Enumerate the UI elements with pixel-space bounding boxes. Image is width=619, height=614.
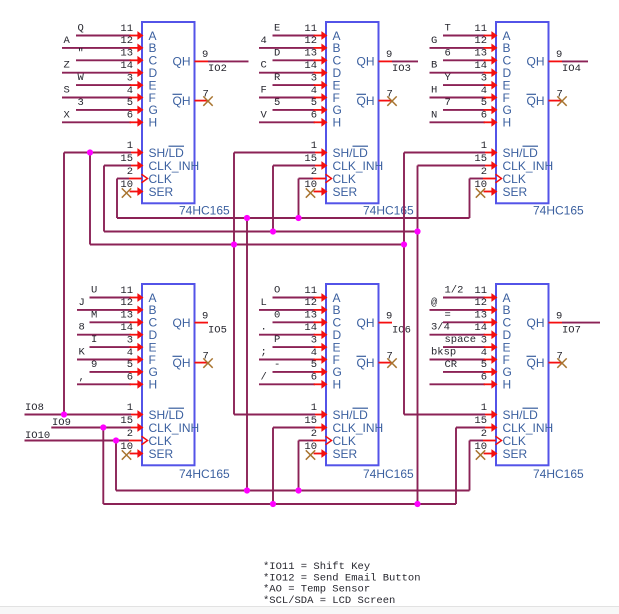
svg-text:9: 9 [556, 310, 562, 322]
junction CLK_INH bus / U3 tie [414, 228, 420, 234]
svg-text:IO8: IO8 [25, 402, 44, 414]
svg-text:SH/LD: SH/LD [503, 408, 539, 422]
svg-text:74HC165: 74HC165 [179, 467, 230, 481]
svg-text:QH: QH [357, 316, 375, 330]
U6 pin 5 input G wire net "CR" [443, 359, 498, 376]
svg-text:74HC165: 74HC165 [533, 204, 584, 218]
svg-text:-: - [274, 359, 280, 371]
U6 part value label 74HC165 [533, 467, 584, 481]
svg-text:IO5: IO5 [208, 324, 227, 336]
U6 pin 11 input A wire net "1/2" [443, 285, 498, 302]
svg-text:3: 3 [78, 97, 84, 109]
svg-text:bksp: bksp [431, 347, 456, 359]
wire net CLK_INH: IO9 drop to bottom bus [102, 428, 104, 505]
IC U5 74HC165 body [326, 284, 383, 465]
U3 pin 13 input C wire net "6" [443, 47, 498, 64]
svg-text:QH: QH [173, 316, 191, 330]
svg-text:2: 2 [127, 428, 133, 440]
wire net SH/LD: IO8 feed to U4 pin 1 [25, 414, 132, 416]
svg-text:74HC165: 74HC165 [533, 467, 584, 481]
wire net SH/LD: U3-U6 tie vertical [403, 153, 405, 415]
svg-text:4: 4 [311, 347, 317, 359]
svg-text:*SCL/SDA = LCD Screen: *SCL/SDA = LCD Screen [263, 595, 395, 607]
junction IO8 / vertical [61, 411, 67, 417]
U6 pin 15 CLK_INH input [474, 415, 497, 432]
svg-text:C: C [261, 60, 267, 72]
wire net SH/LD: drop to top bus [89, 153, 91, 245]
svg-text:3/4: 3/4 [431, 322, 450, 334]
svg-text:SER: SER [503, 447, 528, 461]
U6 pin 3 input E wire net "space" [443, 334, 498, 351]
svg-text:15: 15 [120, 415, 133, 427]
svg-text:9: 9 [202, 310, 208, 322]
svg-text:H: H [149, 116, 158, 130]
svg-text:6: 6 [127, 372, 133, 384]
U5 pin 13 input C wire net "0" [273, 309, 328, 326]
U3 pin 11 input A wire net "T" [443, 23, 498, 40]
svg-text:13: 13 [474, 310, 487, 322]
svg-text:6: 6 [445, 47, 451, 59]
svg-text:15: 15 [304, 415, 317, 427]
wire net CLK: U3 riser [469, 179, 471, 219]
svg-text:H: H [503, 378, 512, 392]
svg-text:5: 5 [274, 97, 280, 109]
svg-text:QH: QH [357, 55, 375, 69]
U2 pin 7 output /QH no-connect [379, 88, 397, 106]
svg-text:5: 5 [481, 97, 487, 109]
svg-text:E: E [274, 23, 280, 35]
wire net SH/LD: U5 pin 1 horizontal [234, 414, 315, 416]
U2 pin 5 input G wire net "5" [273, 97, 328, 114]
junction IO10 / bottom drop [113, 437, 119, 443]
wire net CLK_INH: U3 vertical tie top-bottom [417, 166, 419, 505]
svg-text:74HC165: 74HC165 [363, 467, 414, 481]
svg-text:CLK_INH: CLK_INH [333, 159, 384, 173]
svg-text:4: 4 [127, 347, 133, 359]
svg-text:1: 1 [127, 402, 133, 414]
U2 pin 9 output QH net IO3 [379, 49, 419, 75]
svg-text:QH: QH [173, 94, 191, 108]
U6 pin 9 output QH net IO7 [549, 310, 601, 336]
U2 part value label 74HC165 [363, 204, 414, 218]
U3 pin 14 input D wire net "B" [430, 60, 498, 77]
wire net CLK_INH: U6 riser [455, 428, 457, 505]
svg-text:3: 3 [311, 72, 317, 84]
U2 pin 6 input H wire net "V" [259, 109, 328, 126]
U4 pin 6 input H wire net "," [77, 371, 144, 388]
svg-text:5: 5 [311, 97, 317, 109]
wire net CLK_INH: U5 riser [272, 428, 274, 505]
U1 pin 3 input E wire net "W" [76, 72, 144, 89]
svg-text:74HC165: 74HC165 [179, 204, 230, 218]
U6 pin 7 output /QH no-connect [549, 350, 567, 368]
svg-text:,: , [79, 371, 85, 383]
wire net CLK: U1 drop to top bus [116, 179, 118, 219]
svg-text:IO3: IO3 [392, 63, 411, 75]
svg-text:SH/LD: SH/LD [333, 408, 369, 422]
wire net CLK: U6 riser [469, 441, 471, 491]
U4 pin 3 input E wire net "I" [90, 334, 144, 351]
svg-text:15: 15 [120, 153, 133, 165]
U3 pin 3 input E wire net "Y" [443, 72, 498, 89]
svg-text:CLK_INH: CLK_INH [503, 421, 554, 435]
wire net CLK_INH: IO9 feed to U4 pin 15 [51, 427, 131, 429]
U4 pin 13 input C wire net "M" [90, 309, 144, 326]
U4 pin 15 CLK_INH input [120, 415, 143, 432]
wire net CLK_INH: U1 pin 15 horizontal [104, 165, 131, 167]
svg-text:IO6: IO6 [392, 324, 411, 336]
svg-text:QH: QH [173, 55, 191, 69]
U3 pin 7 output /QH no-connect [549, 88, 567, 106]
svg-text:H: H [333, 378, 342, 392]
U5 pin 7 output /QH no-connect [379, 350, 397, 368]
junction CLK bus / tie vertical [244, 215, 250, 221]
U5 pin 14 input D wire net "." [259, 322, 328, 339]
svg-text:11: 11 [120, 285, 133, 297]
U5 pin 12 input B wire net "L" [259, 297, 328, 314]
svg-text:6: 6 [311, 372, 317, 384]
wire net CLK_INH: U6 pin 15 horizontal [456, 427, 485, 429]
U1 part value label 74HC165 [179, 204, 230, 218]
wire net CLK: U5 riser [298, 441, 300, 491]
wire net CLK: U5 pin 2 horizontal [299, 440, 314, 442]
junction SH/LD bus / U3-U6 tie [401, 241, 407, 247]
svg-text:P: P [274, 334, 280, 346]
svg-text:QH: QH [527, 316, 545, 330]
U3 pin 10 SER input no-connect [474, 179, 497, 198]
svg-text:2: 2 [481, 166, 487, 178]
U2 pin 10 SER input no-connect [304, 179, 327, 198]
svg-text:4: 4 [127, 85, 133, 97]
svg-text:I: I [91, 334, 97, 346]
U1 pin 5 input G wire net "3" [76, 97, 144, 114]
svg-text:IO9: IO9 [52, 417, 71, 429]
U5 pin 9 output QH net IO6 [379, 310, 411, 336]
U1 pin 13 input C wire net """ [76, 47, 144, 64]
svg-text:Z: Z [64, 60, 70, 72]
U5 pin 15 CLK_INH input [304, 415, 327, 432]
U4 pin 2 CLK clock input [127, 428, 148, 445]
wire net CLK_INH: U2 pin 15 horizontal [273, 165, 315, 167]
wire net CLK_INH: bottom bus [103, 503, 456, 505]
svg-text:4: 4 [261, 35, 267, 47]
svg-text:7: 7 [445, 97, 451, 109]
U5 pin 4 input F wire net ";" [259, 347, 328, 364]
svg-text:1: 1 [311, 140, 317, 152]
svg-text:13: 13 [304, 48, 317, 60]
svg-text:SH/LD: SH/LD [503, 146, 539, 160]
U5 pin 11 input A wire net "O" [273, 285, 328, 302]
svg-text:12: 12 [474, 297, 487, 309]
svg-text:R: R [274, 72, 281, 84]
svg-text:2: 2 [311, 428, 317, 440]
IC U2 74HC165 body [326, 22, 383, 203]
wire net SH/LD: top bus [90, 244, 404, 246]
U6 pin 6 input H wire [430, 372, 498, 389]
junction CLK bottom bus / tie vertical [244, 487, 250, 493]
svg-text:F: F [261, 85, 267, 97]
svg-text:SH/LD: SH/LD [149, 408, 185, 422]
svg-text:14: 14 [474, 60, 487, 72]
svg-text:IO10: IO10 [25, 430, 50, 442]
U1 pin 9 output QH net IO2 [195, 49, 249, 75]
svg-text:15: 15 [474, 415, 487, 427]
svg-text:13: 13 [474, 48, 487, 60]
U4 pin 7 output /QH no-connect [195, 350, 213, 368]
svg-text:Y: Y [445, 72, 452, 84]
svg-text:4: 4 [481, 347, 487, 359]
svg-text:1: 1 [481, 140, 487, 152]
svg-text:2: 2 [127, 166, 133, 178]
svg-text:CLK_INH: CLK_INH [149, 421, 200, 435]
U3 pin 12 input B wire net "G" [430, 35, 498, 52]
U4 pin 11 input A wire net "U" [90, 285, 144, 302]
junction CLK_INH bottom bus / U3 tie [414, 501, 420, 507]
svg-text:3: 3 [481, 334, 487, 346]
svg-text:M: M [91, 309, 97, 321]
U2 pin 13 input C wire net "D" [273, 47, 328, 64]
wire net CLK: IO10 drop to bottom bus [115, 441, 117, 491]
svg-text:9: 9 [91, 359, 97, 371]
junction CLK bottom bus / U5 riser [295, 487, 301, 493]
U1 pin 7 output /QH no-connect [195, 88, 213, 106]
svg-text:11: 11 [304, 285, 317, 297]
svg-text:H: H [149, 378, 158, 392]
svg-text:74HC165: 74HC165 [363, 204, 414, 218]
wire net CLK: U3 pin 2 horizontal [470, 178, 484, 180]
svg-text:1: 1 [481, 402, 487, 414]
svg-text:12: 12 [120, 35, 133, 47]
U4 pin 5 input G wire net "9" [90, 359, 144, 376]
svg-text:SER: SER [333, 447, 358, 461]
svg-text:QH: QH [173, 356, 191, 370]
wire net CLK_INH: U2 riser [272, 166, 274, 232]
wire net SH/LD: U2 pin 1 horizontal [234, 152, 315, 154]
U1 pin 12 input B wire net "A" [62, 35, 144, 52]
svg-text:5: 5 [481, 359, 487, 371]
svg-text:14: 14 [304, 322, 317, 334]
U6 pin 4 input F wire net "bksp" [430, 347, 498, 364]
svg-text:.: . [261, 322, 267, 334]
svg-text:V: V [261, 109, 268, 121]
U5 pin 3 input E wire net "P" [273, 334, 328, 351]
svg-text:12: 12 [120, 297, 133, 309]
svg-text:11: 11 [304, 23, 317, 35]
wire net CLK_INH: U1 drop to top bus [103, 166, 105, 232]
IC U4 74HC165 body [142, 284, 199, 465]
svg-text:CLK_INH: CLK_INH [333, 421, 384, 435]
wire net CLK: bottom bus [116, 490, 470, 492]
svg-text:SER: SER [333, 185, 358, 199]
svg-text:*IO11 = Shift Key: *IO11 = Shift Key [263, 561, 370, 573]
U6 pin 2 CLK clock input [481, 428, 502, 445]
wire net CLK: U2 pin 2 horizontal [299, 178, 314, 180]
svg-text:U: U [91, 285, 97, 297]
svg-text:X: X [64, 109, 71, 121]
svg-text:1: 1 [127, 140, 133, 152]
U5 pin 6 input H wire net "/" [259, 371, 328, 388]
svg-text:T: T [445, 23, 451, 35]
svg-text:11: 11 [474, 23, 487, 35]
svg-text:13: 13 [120, 310, 133, 322]
svg-text:6: 6 [481, 372, 487, 384]
svg-text:SH/LD: SH/LD [149, 146, 185, 160]
U4 pin 10 SER input no-connect [120, 441, 143, 460]
svg-text:space: space [445, 334, 477, 346]
junction U1 SH/LD / bus drop [87, 149, 93, 155]
U3 part value label 74HC165 [533, 204, 584, 218]
wire net CLK_INH: U5 pin 15 horizontal [273, 427, 315, 429]
wire net CLK: U6 pin 2 horizontal [470, 440, 484, 442]
svg-text:14: 14 [304, 60, 317, 72]
svg-text:SER: SER [149, 185, 174, 199]
U5 pin 2 CLK clock input [311, 428, 332, 445]
svg-text:3: 3 [311, 334, 317, 346]
U3 pin 4 input F wire net "H" [430, 85, 498, 102]
svg-text:QH: QH [527, 356, 545, 370]
U3 pin 5 input G wire net "7" [443, 97, 498, 114]
U4 pin 14 input D wire net "8" [77, 322, 144, 339]
svg-text:15: 15 [304, 153, 317, 165]
U3 pin 1 SH/LD input [481, 140, 498, 157]
U1 pin 11 input A wire net "Q" [76, 23, 144, 40]
svg-text:QH: QH [357, 356, 375, 370]
U2 pin 2 CLK clock input [311, 166, 332, 183]
svg-text:;: ; [261, 347, 267, 359]
U3 pin 15 CLK_INH input [474, 153, 497, 170]
svg-text:6: 6 [311, 110, 317, 122]
svg-text:15: 15 [474, 153, 487, 165]
svg-text:N: N [431, 109, 437, 121]
svg-text:SER: SER [503, 185, 528, 199]
IO9 net label [52, 417, 71, 429]
U3 pin 2 CLK clock input [481, 166, 502, 183]
svg-text:9: 9 [202, 49, 208, 61]
wire net SH/LD: vertical IO8 to U1 pin 1 [63, 153, 65, 415]
svg-text:14: 14 [474, 322, 487, 334]
U1 pin 2 CLK clock input [127, 166, 148, 183]
wire net CLK: U2 riser [298, 179, 300, 219]
svg-text:S: S [64, 85, 70, 97]
svg-text:13: 13 [120, 48, 133, 60]
IC U6 74HC165 body [496, 284, 553, 465]
U2 pin 11 input A wire net "E" [273, 23, 328, 40]
svg-text:3: 3 [481, 72, 487, 84]
svg-text:14: 14 [120, 60, 133, 72]
svg-text:4: 4 [481, 85, 487, 97]
wire net CLK: IO10 feed to U4 pin 2 [25, 440, 130, 442]
junction CLK_INH bottom bus / U5 riser [270, 501, 276, 507]
svg-text:=: = [445, 309, 451, 321]
svg-text:QH: QH [527, 55, 545, 69]
junction CLK_INH bus / U2 riser [270, 228, 276, 234]
svg-text:12: 12 [304, 35, 317, 47]
svg-text:2: 2 [311, 166, 317, 178]
svg-text:12: 12 [474, 35, 487, 47]
wire net CLK: top-bottom tie vertical [246, 218, 248, 491]
svg-text:J: J [79, 297, 85, 309]
junction IO9 / bottom drop [100, 424, 106, 430]
svg-text:4: 4 [311, 85, 317, 97]
svg-text:3: 3 [127, 72, 133, 84]
svg-text:CLK: CLK [503, 172, 526, 186]
svg-text:IO4: IO4 [562, 63, 581, 75]
U4 pin 4 input F wire net "K" [77, 347, 144, 364]
U5 pin 5 input G wire net "-" [273, 359, 328, 376]
U1 pin 1 SH/LD input [127, 140, 144, 157]
svg-text:QH: QH [357, 94, 375, 108]
svg-text:W: W [78, 72, 85, 84]
svg-text:D: D [274, 47, 280, 59]
svg-text:11: 11 [474, 285, 487, 297]
svg-text:L: L [261, 297, 267, 309]
wire net CLK: U1 pin 2 horizontal [117, 178, 129, 180]
svg-text:5: 5 [127, 97, 133, 109]
U2 pin 4 input F wire net "F" [259, 85, 328, 102]
wire net SH/LD: U1 pin 1 horizontal [64, 152, 131, 154]
svg-text:9: 9 [556, 49, 562, 61]
U3 pin 6 input H wire net "N" [430, 109, 498, 126]
svg-text:CLK: CLK [333, 172, 356, 186]
wire net SH/LD: U6 pin 1 horizontal [404, 414, 485, 416]
U1 pin 4 input F wire net "S" [62, 85, 144, 102]
U6 pin 10 SER input no-connect [474, 441, 497, 460]
junction CLK bus / U2 riser [295, 215, 301, 221]
wire net CLK_INH: top bus [104, 231, 418, 233]
wire net CLK: top bus [117, 217, 470, 219]
svg-text:13: 13 [304, 310, 317, 322]
svg-text:QH: QH [527, 94, 545, 108]
IC U1 74HC165 body [142, 22, 199, 203]
svg-text:1: 1 [311, 402, 317, 414]
U5 pin 10 SER input no-connect [304, 441, 327, 460]
U4 pin 1 SH/LD input [127, 402, 144, 419]
U6 pin 13 input C wire net "=" [443, 309, 498, 326]
U2 pin 3 input E wire net "R" [273, 72, 328, 89]
U4 pin 9 output QH net IO5 [195, 310, 227, 336]
U5 part value label 74HC165 [363, 467, 414, 481]
svg-text:1/2: 1/2 [445, 285, 464, 297]
svg-text:H: H [333, 116, 342, 130]
svg-text:B: B [431, 60, 437, 72]
svg-text:IO2: IO2 [208, 63, 227, 75]
svg-text:9: 9 [386, 49, 392, 61]
wire net SH/LD: U3 pin 1 horizontal [404, 152, 485, 154]
svg-text:G: G [431, 35, 437, 47]
wire net SH/LD: U2-U5 tie vertical [233, 153, 235, 415]
svg-text:H: H [431, 85, 437, 97]
svg-text:CLK_INH: CLK_INH [149, 159, 200, 173]
U6 pin 1 SH/LD input [481, 402, 498, 419]
svg-text:*IO12 = Send Email Button: *IO12 = Send Email Button [263, 572, 421, 584]
U2 pin 15 CLK_INH input [304, 153, 327, 170]
svg-text:IO7: IO7 [562, 324, 581, 336]
U6 pin 12 input B wire net "@" [430, 297, 498, 314]
svg-text:11: 11 [120, 23, 133, 35]
svg-text:/: / [261, 371, 267, 383]
U1 pin 6 input H wire net "X" [62, 109, 144, 126]
U2 pin 1 SH/LD input [311, 140, 328, 157]
svg-text:O: O [274, 285, 280, 297]
svg-text:Q: Q [78, 23, 84, 35]
svg-text:12: 12 [304, 297, 317, 309]
svg-text:5: 5 [311, 359, 317, 371]
svg-text:0: 0 [274, 309, 280, 321]
svg-text:14: 14 [120, 322, 133, 334]
U1 pin 15 CLK_INH input [120, 153, 143, 170]
svg-text:3: 3 [127, 334, 133, 346]
svg-text:CLK: CLK [149, 172, 172, 186]
